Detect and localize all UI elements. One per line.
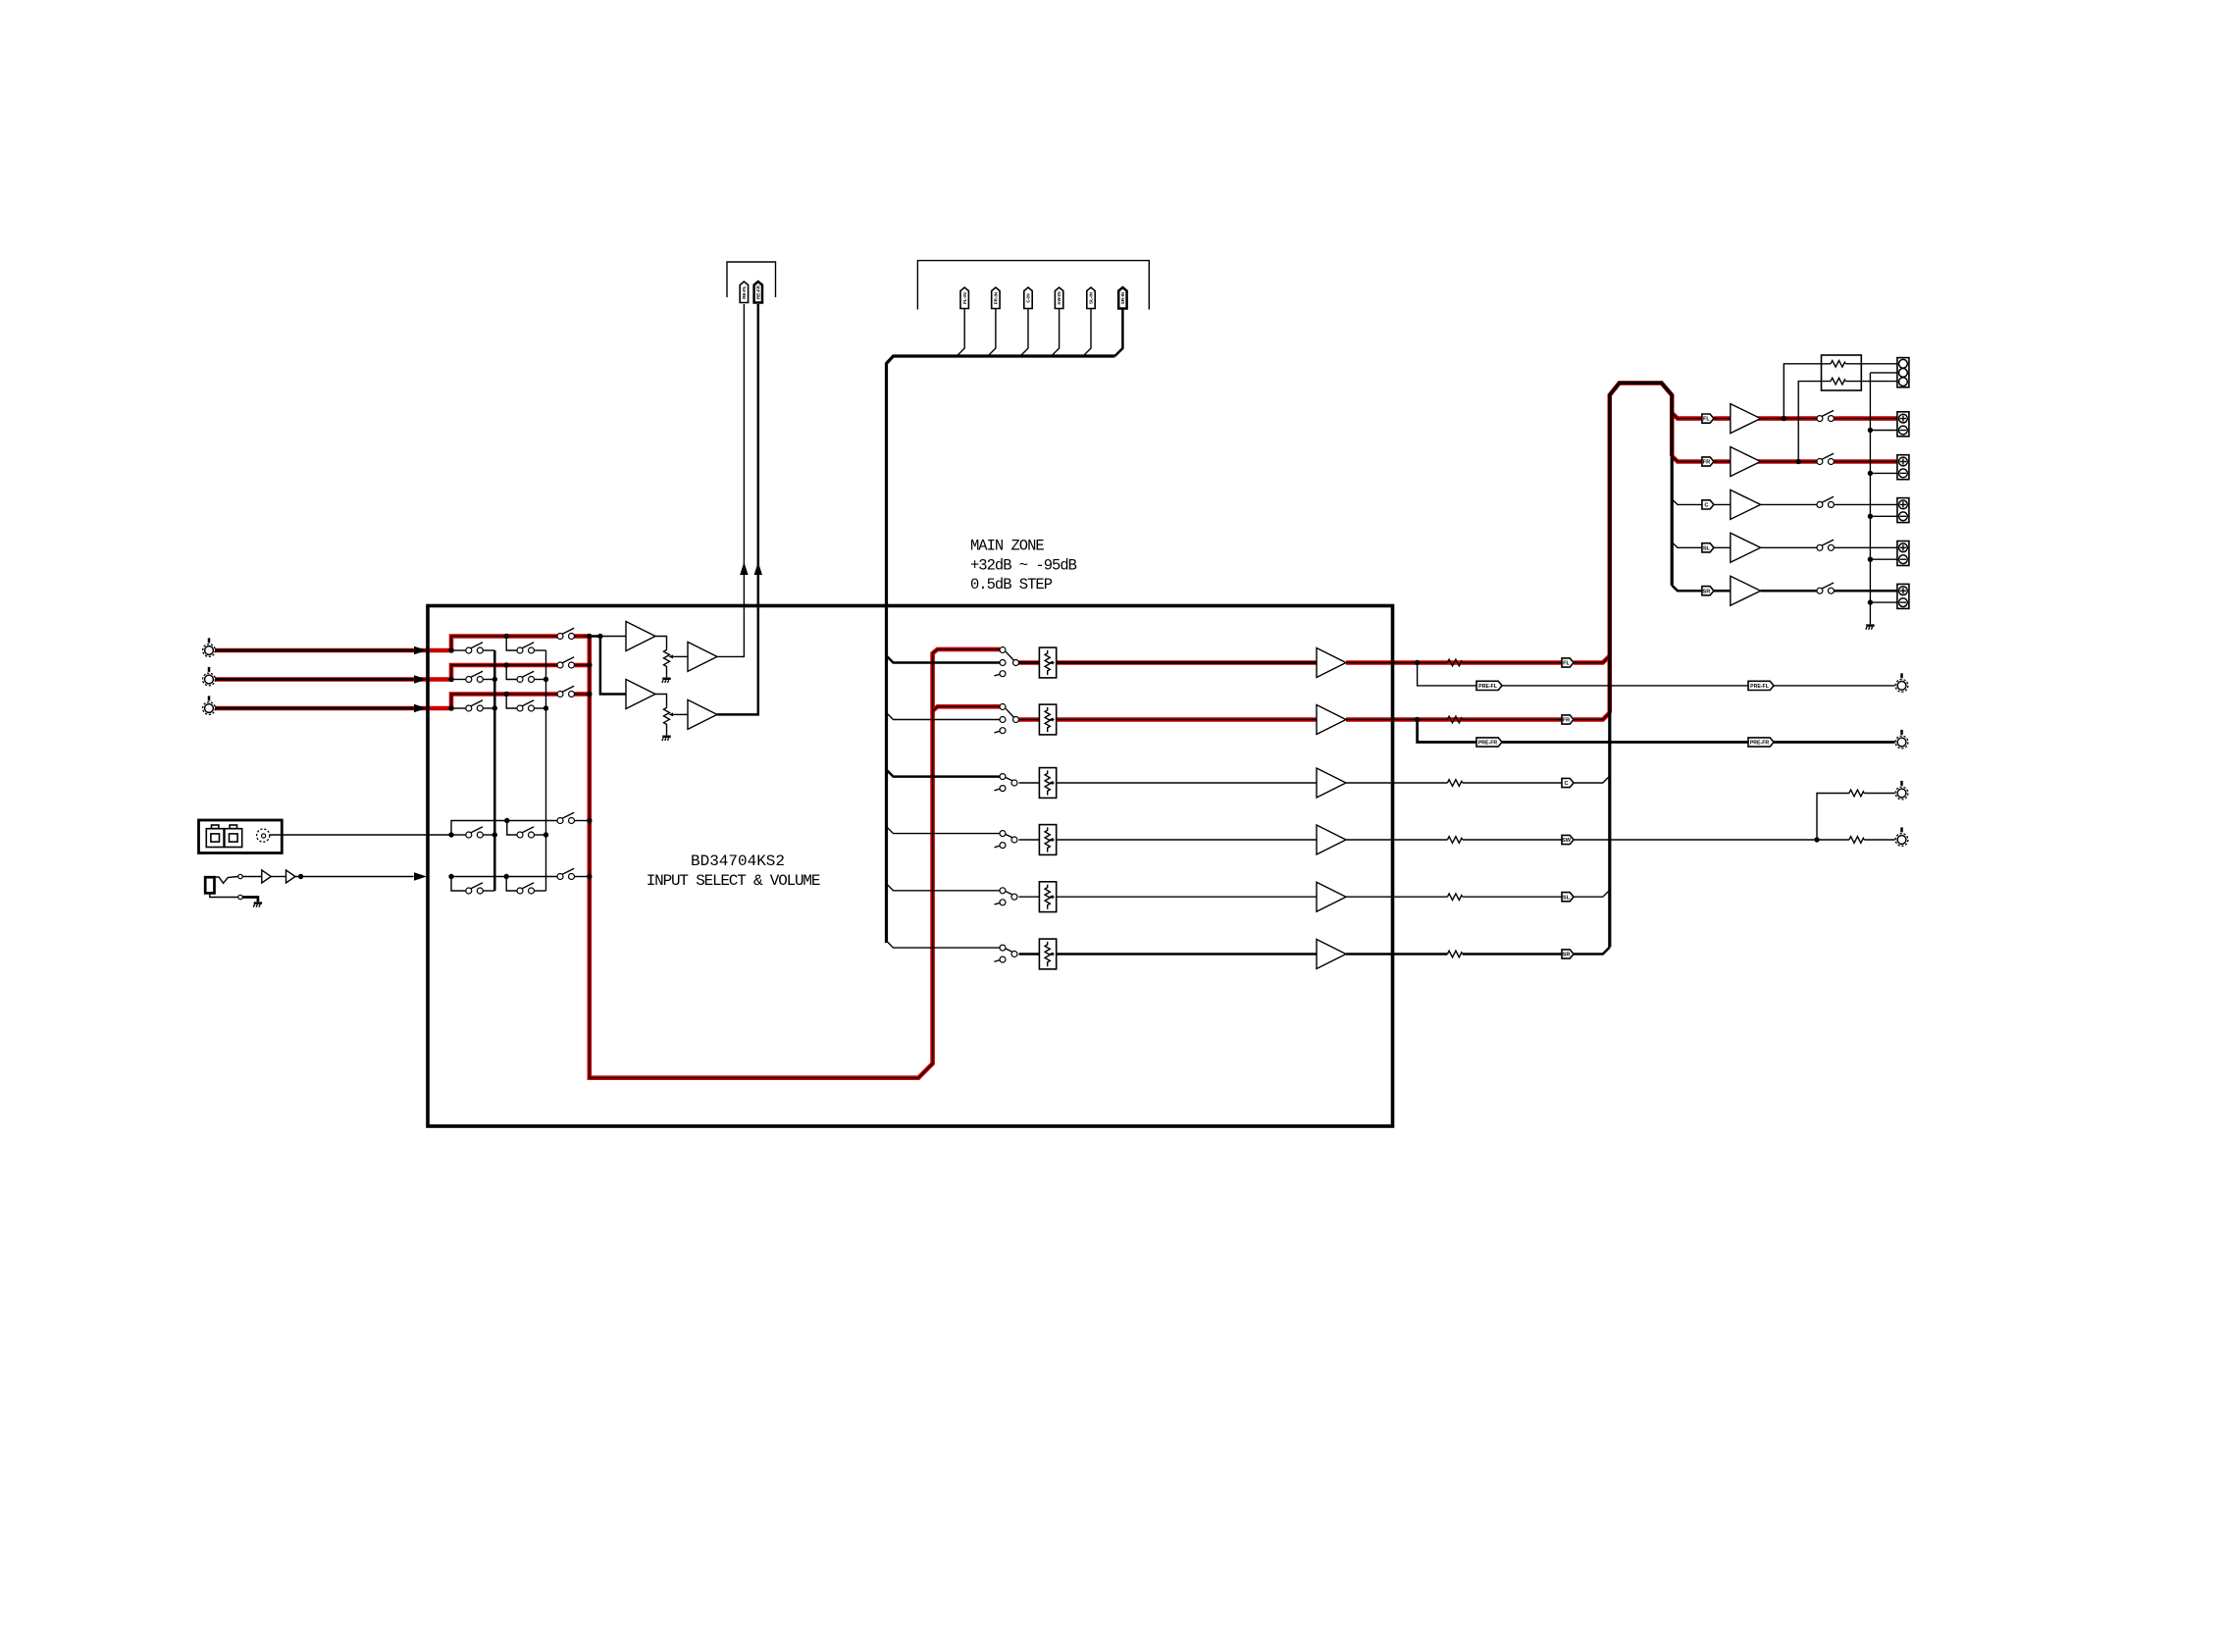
speaker terminal block TB3 C [1897,498,1909,523]
wire col1 bus vertical [493,650,496,891]
highlighted net (red) : volume row FR [1019,717,1318,722]
wire bus branch to volume FL switch [887,656,1001,663]
wire attenuator to amp C [1057,782,1317,784]
wire SR join channel bus [1574,948,1610,955]
junction input 1 [448,647,453,652]
wire input 3 to U1 [216,707,414,710]
svg-text:FL: FL [1703,417,1710,423]
IC block U1 BD34704KS2 INPUT SELECT & VOLUME [428,606,1393,1127]
wire C join channel bus [1574,776,1610,783]
switch SW-FL input select (SP3T) [995,647,1019,677]
wire amp out SR [1346,953,1447,955]
net label SW [1562,835,1574,844]
svg-text:SW: SW [1562,838,1572,844]
junction headphone input [448,874,453,879]
speaker terminal block TB2 FR [1897,455,1909,480]
junction selected bus row1 [587,634,592,639]
wire col2 tap row2 [506,665,517,680]
switch/relay K2 speaker FR [1817,453,1835,464]
pin CN2-3 [1024,287,1032,309]
rheostat RV1 rec L level [664,647,674,672]
sense terminal block TB6 [1897,358,1909,387]
connector bracket CN2 (zone/record select) [917,261,1149,310]
wire optical input to U1 [270,834,451,836]
wire jack to headphone amp [242,876,262,878]
op-amp U2a rec L buffer [626,622,655,651]
wire CN2-2 to bus [988,309,996,357]
svg-text:MAIN ZONE: MAIN ZONE [970,538,1044,555]
input RCA jack J1 [203,638,216,656]
svg-text:PRE-FL: PRE-FL [1750,684,1770,690]
switch/relay K5 speaker SR [1817,583,1835,594]
power amp PA3 C [1731,490,1761,519]
wire switch to attenuator FL [1019,661,1040,664]
wire speaker minus C [1870,515,1897,517]
resistor R-SW output series [1447,837,1462,844]
switch S2e col2 phones [517,883,535,894]
svg-text:SL-IN: SL-IN [1089,291,1094,304]
wire amp to relay switch FR [1761,461,1817,463]
wire bus branch to volume C switch [887,770,1001,777]
wire bus branch speaker SL [1672,542,1702,548]
highlighted net (red) : selected input FR path [215,665,557,680]
wire speaker minus FR [1870,472,1897,474]
pin CN1-1 REC L [740,282,748,303]
svg-text:FL: FL [1563,661,1570,667]
arrowhead input 2 [414,675,427,683]
op-amp U4f volume buffer SR [1317,940,1346,969]
resistor R-SW1 [1849,790,1864,797]
wire amp to relay switch SR [1761,590,1817,593]
wire input 2 to U1 [216,678,414,681]
switch SW-SW input select (SPDT) [995,831,1018,849]
wire PRE-FL to jack [1774,685,1895,687]
input RCA jack J2 [203,667,216,686]
attenuator/volume pot RV-SL [1039,882,1056,912]
svg-text:C: C [1704,503,1708,509]
attenuator/volume pot RV-SW [1039,825,1056,855]
wire FL sense to resistor pack [1784,364,1821,419]
wire U3a out to level pot [655,695,667,706]
wire attenuator to amp FL [1057,661,1317,664]
wire rec buffer feed vertical [600,637,626,695]
speaker terminal block TB1 FL [1897,412,1909,437]
digital input connector (optical/coax) J4 [199,820,283,853]
wire to speaker terminal FR [1835,461,1897,463]
wire SW channel to sub out [1574,839,1817,841]
svg-text:BD34704KS2: BD34704KS2 [691,852,785,870]
switch/relay K4 speaker SL [1817,540,1835,550]
wire to speaker terminal C [1835,503,1897,505]
wire amp to relay switch SL [1761,546,1817,548]
wire CN2-1 to bus [957,309,964,357]
wire CN2-4 to bus [1052,309,1060,357]
switch S3d col3 optical [557,812,575,823]
wire row1 to col1 switch [451,649,466,651]
wire attenuator to amp SW [1057,839,1317,841]
op-amp U4b volume buffer FR [1317,705,1346,735]
wire bus branch to volume SL switch [887,884,1001,891]
wire switch to attenuator SW [1019,839,1040,841]
attenuator/volume pot RV-FL [1039,647,1056,678]
svg-text:C: C [1564,781,1568,787]
op-amp U4a volume buffer FL [1317,648,1346,678]
junction col2 tap row2 [504,662,509,667]
highlighted net (red) : bus FL/FR up and over [1610,383,1672,712]
op-amp U4d volume buffer SW [1317,825,1346,854]
wire bus branch speaker C [1672,499,1702,505]
wire SL join channel bus [1574,890,1610,897]
resistor R-SW2 [1849,837,1864,844]
wire row3 to col1 switch [451,707,466,709]
switch/relay K3 speaker C [1817,496,1835,507]
pin CN2-6 [1118,287,1126,309]
wire to speaker terminal SL [1835,546,1897,548]
power amp PA5 SR [1731,576,1761,605]
junction subwoofer split [1814,837,1819,842]
pin CN2-1 [960,287,968,309]
wire bus branch speaker SR [1672,586,1702,592]
resistor RN1a [1831,361,1845,368]
wire speaker minus SR [1870,601,1897,603]
attenuator/volume pot RV-C [1039,768,1056,799]
switch S1a col1 row1 [466,643,484,653]
switch S2d col2 optical [517,827,535,838]
junction pre-out tap FR [1415,717,1420,722]
wire switch to attenuator SR [1019,953,1040,955]
power amp PA1 FL [1731,404,1761,434]
net label FL [1562,658,1574,667]
net label speaker SR [1702,587,1714,595]
wire FL join channel bus [1574,656,1610,663]
junction input 3 [448,705,453,710]
wire row3 to selected bus (under red) [451,695,557,709]
wire row2 to col1 switch [451,679,466,681]
wire row1 to selected bus (under red) [451,637,557,651]
svg-text:FR: FR [1703,460,1710,466]
wire switch to attenuator SL [1019,896,1040,898]
net label FR [1562,715,1574,724]
wire PRE-FL branch [1418,663,1476,686]
junction col2 tap phones [504,874,509,879]
svg-text:0.5dB STEP: 0.5dB STEP [970,576,1053,594]
wire amp out FL [1346,662,1447,664]
switch S1b col1 row2 [466,671,484,682]
junction selected bus phones [587,874,592,879]
svg-text:SW-IN: SW-IN [1057,291,1061,305]
svg-text:SR-IN: SR-IN [1120,291,1125,304]
net label speaker FL [1702,414,1714,423]
op-amp U2b rec L out [688,642,717,671]
wire headphone signal to U1 [295,876,414,878]
junction FR sense tap [1796,459,1801,464]
wire U2a out to level pot [655,637,667,648]
wire CN2-5 to bus [1083,309,1091,357]
switch/relay K1 speaker FL [1817,410,1835,421]
junction pre-out tap FL [1415,660,1420,665]
wire optical to col1 switch [451,834,466,836]
switch S1d col1 optical [466,827,484,838]
wire col2 tap phones [506,877,517,892]
arrowhead input 1 [414,646,427,654]
wire RV1 wiper to U2b [673,655,688,657]
junction speaker return C [1868,514,1873,519]
svg-text:PRE-FR: PRE-FR [1478,741,1498,747]
resistor R-FR output series [1447,716,1462,723]
switch S1c col1 row3 [466,700,484,711]
ground headphone [253,903,262,907]
wire attenuator to amp SR [1057,953,1317,955]
junction rec buffer feed [597,634,602,639]
wire col2 bus vertical [545,650,547,891]
wire bus branch to volume SR switch [887,941,1001,948]
resistor R-FL output series [1447,659,1462,666]
junction selected bus optical [587,818,592,823]
wire rec L to header [717,304,744,656]
net label PRE-FL (source) [1476,681,1502,690]
power amp PA2 FR [1731,447,1761,477]
svg-text:SL: SL [1563,895,1571,901]
pin CN1-2 REC R [754,282,762,303]
input RCA jack J3 [203,696,216,714]
switch SW-SR input select (SPDT) [995,945,1018,962]
svg-text:RE-FR: RE-FR [755,284,760,299]
resistor RN1b [1831,378,1845,385]
switch S2c col2 row3 [517,700,535,711]
wire CN2-3 to bus [1020,309,1028,357]
net label PRE-FL (dest) [1748,681,1774,690]
switch S3c col3 row3 [557,686,575,697]
wire rec R to header [717,304,758,714]
rheostat RV2 rec R level [664,705,674,730]
switch S1e col1 phones [466,883,484,894]
wire SW1 branch [1817,794,1849,841]
switch S2b col2 row2 [517,671,535,682]
wire input 1 to U1 [216,649,414,652]
wire FR join channel bus [1574,713,1610,720]
connector bracket CN1 (rec out) [727,262,776,297]
wire speaker minus SL [1870,558,1897,560]
wire switch to attenuator C [1019,782,1040,784]
speaker terminal block TB4 SL [1897,542,1909,566]
wire row2 to selected bus (under red) [451,665,557,680]
op-amp U4e volume buffer SL [1317,882,1346,911]
switch SW-FR input select (SP3T) [995,704,1019,734]
wire FR sense to resistor pack [1798,382,1821,462]
pre-out RCA jack PRE-FL [1895,673,1908,692]
wire bus branch to volume SW switch [887,827,1001,834]
pin CN2-5 [1087,287,1095,309]
svg-text:+32dB ~ -95dB: +32dB ~ -95dB [970,556,1077,574]
highlighted net (red) : main selected bus to volume block [590,637,1000,1078]
wire RV2 wiper to U3b [673,713,688,715]
switch SW-C input select (SPDT) [995,774,1018,792]
wire attenuator to amp FR [1057,719,1317,721]
net label SL [1562,893,1574,902]
wire to speaker terminal FL [1835,418,1897,420]
ground RV1 [662,679,671,683]
headphone buffer amp A1 [262,870,272,883]
wire phones row to col3 [451,876,557,878]
arrowhead rec L up [740,562,748,575]
svg-text:SR: SR [1703,589,1711,594]
wire optical jog to col3 [451,821,557,836]
pre-out RCA jack SW1 [1895,781,1908,800]
headphone jack J5 [205,874,242,899]
junction after headphone amps [298,874,303,879]
op-amp U4c volume buffer C [1317,768,1346,798]
svg-text:PRE-FL: PRE-FL [1478,684,1498,690]
attenuator/volume pot RV-FR [1039,704,1056,735]
power amp PA4 SL [1731,533,1761,562]
arrowhead rec R up [754,562,762,575]
op-amp U3b rec R out [688,699,717,729]
wire bus branch speaker FL [1672,413,1702,419]
svg-text:SL: SL [1703,545,1711,551]
highlighted net (red) : selected input FL path [215,637,557,651]
svg-text:INPUT SELECT & VOLUME: INPUT SELECT & VOLUME [647,872,820,890]
junction col2 tap row3 [504,692,509,697]
wire RN1b to terminal [1861,381,1897,383]
switch S3e col3 phones [557,868,575,879]
junction input 2 [448,677,453,682]
bus wire main channels up to power amps [1610,383,1672,947]
wire phones col1 drop [451,877,466,892]
wire switch to attenuator FR [1019,719,1040,721]
text U1 part label [647,852,820,890]
svg-text:FL-IN: FL-IN [962,291,967,303]
junction selected bus row3 [587,692,592,697]
junction speaker return SR [1868,599,1873,604]
net label speaker SL [1702,543,1714,552]
wire amp out SW [1346,839,1447,841]
ground RV2 [662,737,671,741]
pre-out RCA jack PRE-FR [1895,730,1908,749]
svg-text:RE-FL: RE-FL [742,285,747,299]
junction col2 tap row1 [504,634,509,639]
junction col2 tap optical [504,818,509,823]
highlighted net (red) : selected input SR path [215,695,557,709]
headphone buffer amp A2 [286,870,296,883]
resistor R-SR output series [1447,951,1462,957]
wire amp to relay switch C [1761,503,1817,505]
ground speaker return bus [1866,626,1875,630]
switch S3a col3 row1 [557,628,575,639]
wire CN2-6 to bus (thick) [1114,309,1122,357]
svg-text:FR: FR [1563,718,1570,724]
attenuator/volume pot RV-SR [1039,939,1056,969]
switch S3b col3 row2 [557,657,575,668]
pre-out RCA jack SW2 [1895,827,1908,846]
wire PRE-FR to jack [1774,741,1895,744]
wire selected-source bus (red) down to volume core [590,637,1000,1078]
svg-text:C-IN: C-IN [1026,293,1031,303]
wire PRE-FR branch [1418,720,1476,743]
pin CN2-2 [992,287,1000,309]
wire red bus branch to FR volume switch [933,706,1000,710]
resistor R-SL output series [1447,894,1462,901]
junction FL sense tap [1782,416,1786,421]
wire amp out FR [1346,719,1447,721]
net label C [1562,778,1574,787]
arrowhead headphone input [414,872,427,880]
junction optical input [448,832,453,837]
svg-text:PRE-FR: PRE-FR [1750,741,1770,747]
wire terminal mid to return bus [1870,372,1897,374]
net label speaker C [1702,500,1714,509]
highlighted net (red) : volume row FL [1019,660,1318,665]
wire col2 tap row1 [506,637,517,651]
junction speaker return FL [1868,428,1873,433]
svg-text:SR: SR [1563,953,1571,958]
svg-text:FR-IN: FR-IN [994,291,999,304]
wire amp out SL [1346,896,1447,898]
switch S2a col2 row1 [517,643,535,653]
op-amp U3a rec R buffer [626,680,655,709]
wire amp out C [1346,782,1447,784]
net label PRE-FR (dest) [1748,738,1774,747]
speaker terminal block TB5 SR [1897,584,1909,608]
arrowhead input 3 [414,704,427,712]
highlighted net (red) : speaker row FL [1672,413,1702,419]
highlighted net (red) : branch to FR volume switch [933,706,1000,710]
wire amp to relay switch FL [1761,418,1817,420]
net label SR [1562,950,1574,958]
wire headphone sleeve to ground [242,898,258,903]
wire col2 tap row3 [506,695,517,709]
wire to speaker terminal SR [1835,590,1897,593]
wire bus branch to volume FR switch [887,713,1001,720]
junction selected bus row2 [587,662,592,667]
junction speaker return SL [1868,557,1873,562]
junction speaker return FR [1868,471,1873,476]
wire to rec buffers [590,635,600,638]
wire speaker return bus to ground [1869,373,1871,624]
net label speaker FR [1702,457,1714,466]
text MAIN ZONE annotation [970,538,1077,594]
resistor R-C output series [1447,780,1462,787]
wire SW2 branch [1817,839,1849,841]
highlighted net (red) : speaker row FR [1672,456,1702,462]
wire speaker minus FL [1870,430,1897,432]
switch SW-SL input select (SPDT) [995,888,1018,905]
bus wire from CN2 header down to volume section [887,356,1115,943]
wire bus branch speaker FR [1672,456,1702,462]
net label PRE-FR (source) [1476,738,1502,747]
resistor network RN1 (speaker sense) [1822,355,1862,390]
wire attenuator to amp SL [1057,896,1317,898]
wire RN1a to terminal [1861,363,1897,365]
pin CN2-4 [1055,287,1062,309]
wire col2 tap optical [507,821,517,836]
